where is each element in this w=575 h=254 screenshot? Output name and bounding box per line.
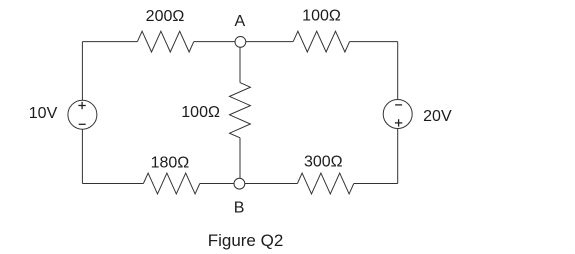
svg-text:100Ω: 100Ω [302,8,341,25]
svg-text:20V: 20V [423,108,452,125]
svg-text:200Ω: 200Ω [146,8,185,25]
svg-text:300Ω: 300Ω [304,154,343,171]
svg-text:A: A [234,13,245,30]
svg-text:100Ω: 100Ω [181,104,220,121]
svg-text:180Ω: 180Ω [151,155,190,172]
svg-text:B: B [234,200,245,217]
svg-text:10V: 10V [29,105,58,122]
svg-text:Figure Q2: Figure Q2 [208,231,284,250]
